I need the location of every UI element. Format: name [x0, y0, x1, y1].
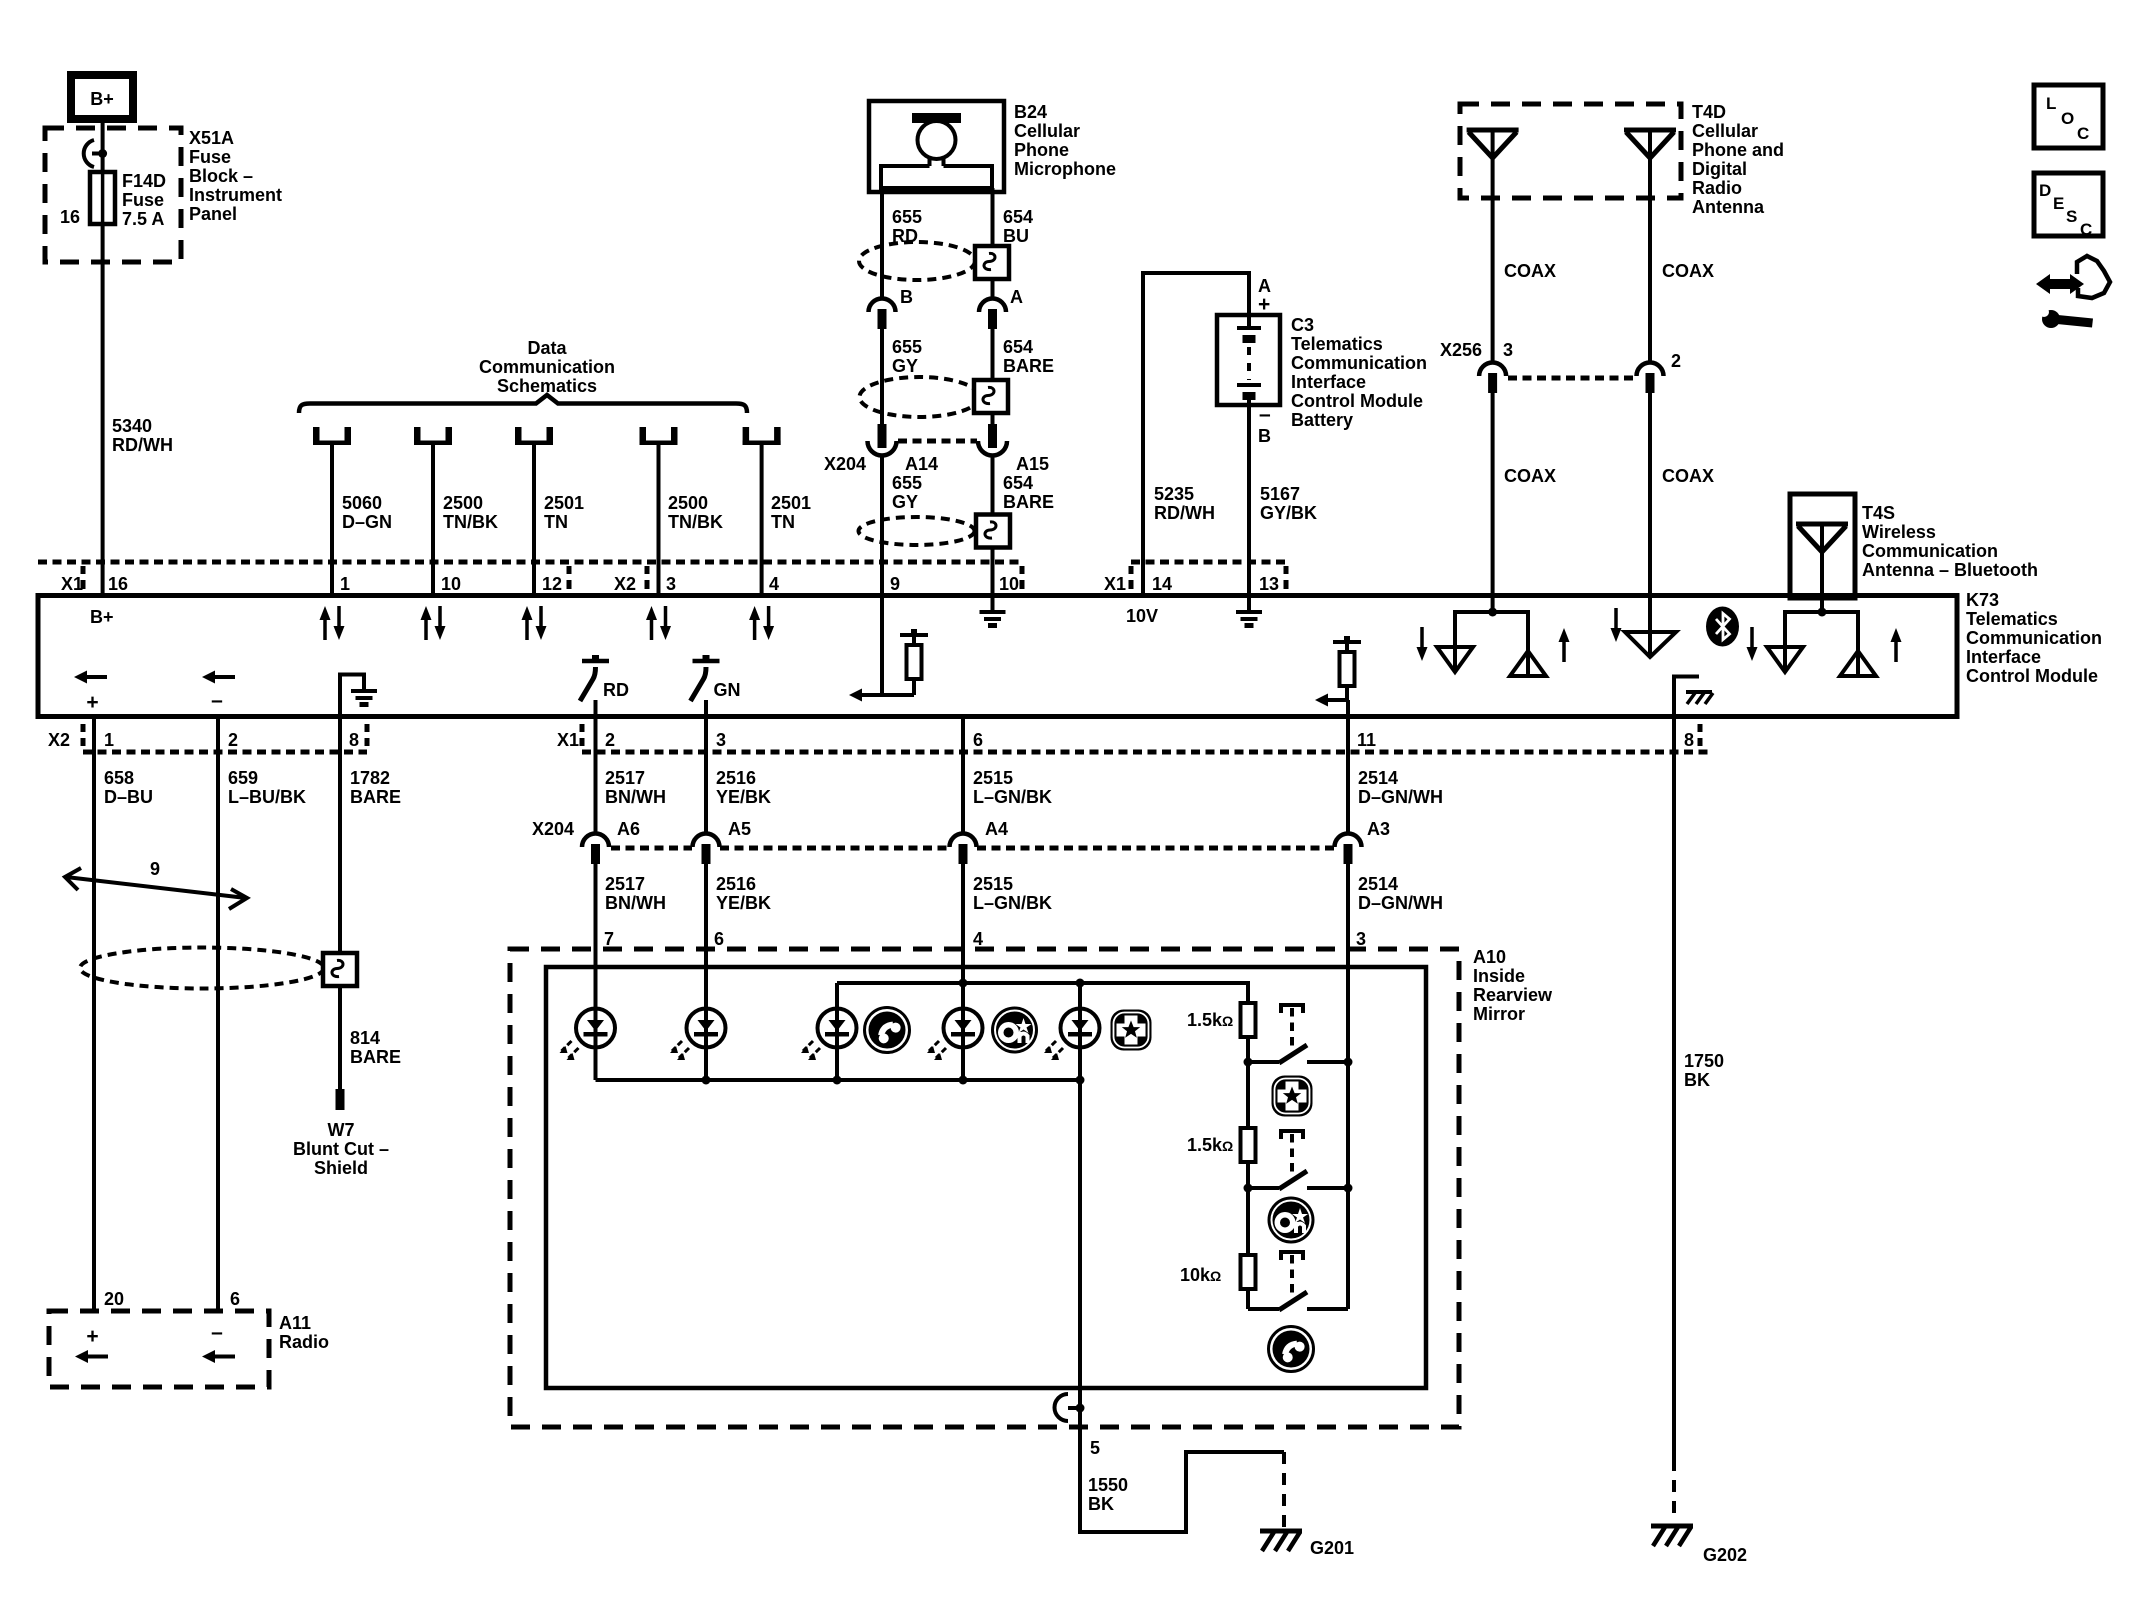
- serial data arrows pin 3: [646, 606, 671, 640]
- svg-text:Battery: Battery: [1291, 410, 1353, 430]
- wire R3 to switch row 3: [1246, 1289, 1250, 1309]
- label 655 RD: [892, 207, 922, 246]
- node switch1 right: [1344, 1058, 1353, 1067]
- svg-text:659: 659: [228, 768, 258, 788]
- svg-text:2: 2: [1671, 351, 1681, 371]
- svg-text:RD/WH: RD/WH: [112, 435, 173, 455]
- svg-text:2500: 2500: [443, 493, 483, 513]
- connector X204 A3: [1335, 834, 1362, 865]
- antenna symbol 1: [1467, 130, 1519, 158]
- svg-text:Blunt Cut –: Blunt Cut –: [293, 1139, 389, 1159]
- svg-text:Interface: Interface: [1966, 647, 2041, 667]
- svg-text:2517: 2517: [605, 874, 645, 894]
- svg-text:Telematics: Telematics: [1966, 609, 2058, 629]
- svg-text:COAX: COAX: [1662, 261, 1714, 281]
- wire 654 BARE (lower): [991, 456, 995, 596]
- wire 2516 YE/BK lower: [704, 864, 708, 1008]
- svg-text:Phone: Phone: [1014, 140, 1069, 160]
- wire 2514 D-GN/WH lower: [1346, 864, 1350, 1062]
- svg-text:8: 8: [349, 730, 359, 750]
- coax wire 1 lower: [1491, 392, 1495, 612]
- label 654 BARE: [1003, 473, 1054, 512]
- svg-text:4: 4: [973, 929, 983, 949]
- mirror inner box: [546, 967, 1426, 1388]
- svg-text:1782: 1782: [350, 768, 390, 788]
- label 2517 BN/WH: [605, 874, 666, 913]
- label 1750 BK: [1684, 1051, 1724, 1090]
- svg-text:Cellular: Cellular: [1692, 121, 1758, 141]
- svg-text:O: O: [2061, 109, 2074, 128]
- battery C3: [1217, 315, 1280, 405]
- resistor R 1.5k (middle): [1241, 1128, 1256, 1162]
- svg-text:2515: 2515: [973, 768, 1013, 788]
- connector X204 A15: [978, 424, 1007, 456]
- svg-text:A14: A14: [905, 454, 938, 474]
- pin labels bottom row: [48, 730, 1694, 750]
- data bus connector (pin 10): [414, 427, 452, 445]
- label 1550 BK: [1088, 1475, 1128, 1514]
- svg-text:14: 14: [1152, 574, 1172, 594]
- coax wire 1 upper: [1491, 130, 1495, 363]
- separator after 12: [567, 566, 572, 589]
- svg-text:655: 655: [892, 473, 922, 493]
- twisted/shield ellipse radio wires: [80, 948, 324, 989]
- wire 655 GY: [880, 328, 884, 424]
- svg-text:1: 1: [104, 730, 114, 750]
- svg-text:Rearview: Rearview: [1473, 985, 1553, 1005]
- svg-text:–: –: [211, 1321, 223, 1344]
- OnStar icon (LED row): [991, 1007, 1038, 1054]
- internal switch GN (pin X1-3): [691, 655, 741, 717]
- label 5235 RD/WH: [1154, 484, 1215, 523]
- svg-text:1: 1: [340, 574, 350, 594]
- radio A11 dashed box: [49, 1311, 269, 1387]
- node bus LED4: [959, 1076, 968, 1085]
- resistor R 10k: [1241, 1255, 1256, 1289]
- svg-text:13: 13: [1259, 574, 1279, 594]
- svg-text:2501: 2501: [771, 493, 811, 513]
- svg-text:2514: 2514: [1358, 768, 1398, 788]
- wire 1750 BK: [1672, 717, 1676, 1459]
- wire 658 D-BU: [92, 717, 96, 1311]
- svg-text:A10: A10: [1473, 947, 1506, 967]
- connector line X2 bottom: [83, 750, 367, 755]
- svg-text:A11: A11: [279, 1313, 311, 1333]
- wire 2517 BN/WH upper: [594, 717, 598, 834]
- svg-text:1.5kΩ: 1.5kΩ: [1187, 1010, 1233, 1030]
- fuse F14D 7.5A: [90, 172, 115, 224]
- internal ground (pin 10 mic): [980, 596, 1006, 626]
- svg-text:1550: 1550: [1088, 1475, 1128, 1495]
- svg-text:Radio: Radio: [1692, 178, 1742, 198]
- svg-text:Shield: Shield: [314, 1158, 368, 1178]
- svg-text:X1: X1: [557, 730, 579, 750]
- svg-text:Radio: Radio: [279, 1332, 329, 1352]
- svg-text:3: 3: [666, 574, 676, 594]
- connector X204 A14: [868, 424, 897, 456]
- OnStar icon (button): [1268, 1197, 1315, 1244]
- data bus connector (X2 pin 3): [640, 427, 678, 445]
- label A +: [1258, 276, 1271, 316]
- svg-text:T4D: T4D: [1692, 102, 1726, 122]
- svg-text:GY: GY: [892, 356, 918, 376]
- T4S box: [1790, 494, 1855, 598]
- terminal hook at fuse input: [84, 140, 107, 167]
- connector X204 A5: [693, 834, 720, 865]
- svg-text:2: 2: [228, 730, 238, 750]
- svg-text:X2: X2: [614, 574, 636, 594]
- separator X1: [580, 724, 585, 746]
- label C3 Telematics Communication Interface Control Module Battery: [1291, 315, 1427, 430]
- svg-text:X204: X204: [532, 819, 574, 839]
- label T4D Cellular Phone and Digital Radio Antenna: [1692, 102, 1784, 217]
- power symbol B+: [71, 75, 133, 119]
- wire 5167 GY/BK: [1247, 400, 1251, 596]
- svg-text:Fuse: Fuse: [122, 190, 164, 210]
- LED indicator 5: [1044, 1009, 1100, 1061]
- internal RF branch bluetooth: [1747, 608, 1902, 677]
- twist symbol box 2: [974, 380, 1008, 413]
- LED4 wire: [961, 983, 965, 1080]
- svg-text:2: 2: [605, 730, 615, 750]
- svg-text:Instrument: Instrument: [189, 185, 282, 205]
- internal pull-up resistor (pin 11): [1333, 636, 1361, 700]
- label K73 Telematics Communication Interface Control Module: [1966, 590, 2102, 686]
- svg-text:L–BU/BK: L–BU/BK: [228, 787, 306, 807]
- svg-text:YE/BK: YE/BK: [716, 787, 771, 807]
- label 2516 YE/BK: [716, 768, 771, 807]
- label - B: [1258, 403, 1271, 446]
- label 5340 RD/WH: [112, 416, 173, 455]
- module K73 box: [38, 596, 1957, 717]
- data bus connector (X2 pin 4): [743, 427, 781, 445]
- internal mic input arrow: [849, 689, 882, 702]
- note 9 crossing arrow: [65, 859, 247, 909]
- svg-text:Communication: Communication: [1966, 628, 2102, 648]
- dashed link X204 row: [611, 846, 1334, 851]
- svg-text:D–GN: D–GN: [342, 512, 392, 532]
- phone icon (button): [1269, 1327, 1314, 1372]
- svg-text:Inside: Inside: [1473, 966, 1525, 986]
- svg-text:1750: 1750: [1684, 1051, 1724, 1071]
- label A11 Radio: [279, 1313, 329, 1352]
- svg-text:A4: A4: [985, 819, 1008, 839]
- right rail wire (pin 3): [1346, 1062, 1350, 1309]
- label 655 GY: [892, 473, 922, 512]
- antenna symbol 2: [1624, 130, 1676, 158]
- data bus connector (pin 12): [515, 427, 553, 445]
- svg-text:A: A: [1010, 287, 1023, 307]
- internal output arrow +: [74, 671, 107, 684]
- wire 654 BU: [991, 188, 995, 244]
- radio + input arrow: [75, 1325, 108, 1363]
- svg-text:Block –: Block –: [189, 166, 253, 186]
- internal RF branch coax 1: [1417, 608, 1570, 677]
- LED indicator 3: [801, 1009, 857, 1061]
- svg-text:5340: 5340: [112, 416, 152, 436]
- switch row 2: [1248, 1131, 1348, 1189]
- LED indicator 1: [560, 1009, 616, 1061]
- svg-text:–: –: [1259, 403, 1271, 426]
- node top rail / LED5: [1076, 979, 1085, 988]
- label 658 D-BU: [104, 768, 153, 807]
- svg-text:TN/BK: TN/BK: [443, 512, 498, 532]
- label 2515 L-GN/BK: [973, 874, 1052, 913]
- svg-text:RD/WH: RD/WH: [1154, 503, 1215, 523]
- svg-text:9: 9: [890, 574, 900, 594]
- wire 2501 TN (X2-4): [760, 445, 764, 596]
- wire 5060 D-GN: [330, 445, 334, 596]
- svg-text:2501: 2501: [544, 493, 584, 513]
- svg-text:COAX: COAX: [1504, 261, 1556, 281]
- svg-text:8: 8: [1684, 730, 1694, 750]
- svg-text:BARE: BARE: [350, 787, 401, 807]
- label 5167 GY/BK: [1260, 484, 1317, 523]
- separator X2: [81, 724, 86, 746]
- DESC box: [2034, 173, 2103, 239]
- serial data arrows pin 12: [522, 606, 547, 640]
- inline connector A: [979, 299, 1006, 330]
- svg-text:654: 654: [1003, 337, 1033, 357]
- wire R2-R3: [1246, 1188, 1250, 1255]
- wire 2515 L-GN/BK lower: [961, 864, 965, 1008]
- label A10 Inside Rearview Mirror: [1473, 947, 1553, 1024]
- svg-text:B24: B24: [1014, 102, 1047, 122]
- svg-text:Control Module: Control Module: [1291, 391, 1423, 411]
- svg-text:658: 658: [104, 768, 134, 788]
- svg-text:B: B: [1258, 426, 1271, 446]
- internal mic input pin 9: wire: [880, 596, 884, 695]
- svg-text:3: 3: [716, 730, 726, 750]
- svg-text:S: S: [2066, 207, 2077, 226]
- svg-text:Communication: Communication: [479, 357, 615, 377]
- svg-text:1.5kΩ: 1.5kΩ: [1187, 1135, 1233, 1155]
- svg-text:A3: A3: [1367, 819, 1390, 839]
- A10 dashed box: [510, 949, 1459, 1427]
- svg-text:Microphone: Microphone: [1014, 159, 1116, 179]
- svg-text:A6: A6: [617, 819, 640, 839]
- svg-text:655: 655: [892, 337, 922, 357]
- brace over data wires: [299, 395, 747, 413]
- label X51A Fuse Block - Instrument Panel: [189, 128, 282, 224]
- dashed drop to G201: [1282, 1452, 1286, 1528]
- fuse block X51A dashed box: [45, 128, 181, 262]
- separator after 10: [1020, 566, 1025, 589]
- svg-text:6: 6: [714, 929, 724, 949]
- connector X204 A4: [950, 834, 977, 865]
- svg-text:G201: G201: [1310, 1538, 1354, 1558]
- label 2514 D-GN/WH: [1358, 768, 1443, 807]
- svg-text:BARE: BARE: [350, 1047, 401, 1067]
- connector line X1/X2 top: [38, 560, 1022, 565]
- svg-text:X204: X204: [824, 454, 866, 474]
- svg-text:Antenna – Bluetooth: Antenna – Bluetooth: [1862, 560, 2038, 580]
- svg-text:Interface: Interface: [1291, 372, 1366, 392]
- separator after 13: [1284, 566, 1289, 589]
- svg-text:E: E: [2053, 194, 2064, 213]
- wire 2516 YE/BK upper: [704, 717, 708, 834]
- svg-text:Telematics: Telematics: [1291, 334, 1383, 354]
- svg-text:10kΩ: 10kΩ: [1180, 1265, 1221, 1285]
- separator after X2-8: [365, 724, 370, 746]
- svg-text:X1: X1: [1104, 574, 1126, 594]
- twisted pair ellipse 3: [859, 517, 975, 545]
- radio - input arrow: [202, 1321, 235, 1363]
- svg-text:BARE: BARE: [1003, 492, 1054, 512]
- svg-text:5: 5: [1090, 1438, 1100, 1458]
- internal ground (pin 13): [1236, 596, 1262, 626]
- connector X256 pin 2: [1637, 363, 1664, 394]
- twist symbol box 1: [975, 246, 1009, 279]
- twisted pair ellipse 2: [860, 377, 980, 417]
- label 2515 L-GN/BK: [973, 768, 1052, 807]
- svg-text:Antenna: Antenna: [1692, 197, 1765, 217]
- wire 654 BARE: [991, 328, 995, 380]
- svg-text:X256: X256: [1440, 340, 1482, 360]
- internal RF antenna coax 2: [1611, 608, 1677, 657]
- svg-text:9: 9: [150, 859, 160, 879]
- svg-text:L: L: [2046, 94, 2056, 113]
- return wire pin 5: [1080, 1080, 1284, 1532]
- svg-text:COAX: COAX: [1504, 466, 1556, 486]
- terminal clip at pin 5: [1055, 1394, 1085, 1421]
- label 2517 BN/WH: [605, 768, 666, 807]
- svg-text:Cellular: Cellular: [1014, 121, 1080, 141]
- medical cross icon (LED row): [1111, 1010, 1152, 1051]
- dashed link A14-A15: [898, 439, 977, 444]
- wire 2500 TN/BK: [431, 445, 435, 596]
- svg-text:B+: B+: [90, 89, 114, 109]
- twist symbol box 3: [976, 515, 1010, 548]
- svg-text:5235: 5235: [1154, 484, 1194, 504]
- separator after X2: [645, 566, 650, 589]
- svg-text:Mirror: Mirror: [1473, 1004, 1525, 1024]
- LED5 wire: [1078, 983, 1082, 1080]
- svg-text:Phone and: Phone and: [1692, 140, 1784, 160]
- coax wire 2 upper: [1648, 130, 1652, 363]
- svg-text:2515: 2515: [973, 874, 1013, 894]
- internal switch RD (pin X1-2): [580, 655, 629, 717]
- wire 2514 D-GN/WH upper: [1346, 717, 1350, 834]
- svg-text:A15: A15: [1016, 454, 1049, 474]
- svg-text:X51A: X51A: [189, 128, 234, 148]
- svg-text:BARE: BARE: [1003, 356, 1054, 376]
- connector line X1 bottom: [582, 750, 1709, 755]
- svg-text:+: +: [86, 691, 98, 714]
- svg-text:BU: BU: [1003, 226, 1029, 246]
- label W7 Blunt Cut - Shield: [293, 1120, 389, 1178]
- svg-text:BK: BK: [1684, 1070, 1710, 1090]
- svg-text:B+: B+: [90, 607, 114, 627]
- svg-text:Communication: Communication: [1291, 353, 1427, 373]
- medical cross icon (button): [1272, 1076, 1313, 1117]
- svg-text:GN: GN: [714, 680, 741, 700]
- svg-text:2517: 2517: [605, 768, 645, 788]
- label 2500 TN/BK: [668, 493, 723, 532]
- inline connector B: [869, 299, 896, 330]
- svg-text:6: 6: [230, 1289, 240, 1309]
- node switch2 left: [1244, 1184, 1253, 1193]
- wire 2501 TN: [532, 445, 536, 596]
- separator at 14: [1129, 566, 1134, 589]
- label F14D Fuse 7.5 A: [122, 171, 166, 229]
- switch row 3: [1248, 1252, 1348, 1310]
- svg-text:K73: K73: [1966, 590, 1999, 610]
- svg-text:BK: BK: [1088, 1494, 1114, 1514]
- svg-text:Fuse: Fuse: [189, 147, 231, 167]
- svg-text:2500: 2500: [668, 493, 708, 513]
- twisted pair ellipse 1: [859, 242, 975, 280]
- svg-text:7: 7: [604, 929, 614, 949]
- svg-text:814: 814: [350, 1028, 380, 1048]
- wire R1 to switch row 1: [1246, 1037, 1250, 1062]
- svg-text:654: 654: [1003, 207, 1033, 227]
- wire 814 BARE: [338, 986, 342, 1089]
- node bus LED3: [833, 1076, 842, 1085]
- label 1782 BARE: [350, 768, 401, 807]
- svg-text:X1: X1: [61, 574, 83, 594]
- label T4S Wireless Communication Antenna - Bluetooth: [1862, 503, 2038, 580]
- connector line X1 (14/13): [1131, 560, 1286, 565]
- svg-text:BN/WH: BN/WH: [605, 787, 666, 807]
- wire 2500 TN/BK (X2-3): [657, 445, 661, 596]
- label 654 BU: [1003, 207, 1033, 246]
- ground G201: [1260, 1531, 1302, 1551]
- blunt cut end W7: [336, 1089, 345, 1110]
- svg-text:Digital: Digital: [1692, 159, 1747, 179]
- svg-text:Panel: Panel: [189, 204, 237, 224]
- wire 2517 BN/WH lower: [594, 864, 598, 1008]
- svg-text:2516: 2516: [716, 874, 756, 894]
- svg-text:B: B: [900, 287, 913, 307]
- wire 1782 BARE: [338, 717, 342, 953]
- svg-text:YE/BK: YE/BK: [716, 893, 771, 913]
- separator X1 left: [81, 566, 86, 589]
- svg-text:L–GN/BK: L–GN/BK: [973, 893, 1052, 913]
- wire 5235 RD/WH top run: [1143, 273, 1249, 596]
- connector X204 A6: [582, 834, 609, 865]
- svg-text:10: 10: [999, 574, 1019, 594]
- svg-text:Wireless: Wireless: [1862, 522, 1936, 542]
- connector X256 pin 3: [1479, 363, 1506, 394]
- wire 654 below twist 1: [991, 279, 995, 299]
- wire 655 RD: [880, 188, 884, 299]
- svg-text:GY/BK: GY/BK: [1260, 503, 1317, 523]
- twist symbol box W7: [323, 953, 357, 986]
- node bus return: [1076, 1076, 1085, 1085]
- wire 5340 RD/WH: [101, 224, 105, 596]
- label 814 BARE: [350, 1028, 401, 1067]
- svg-text:2514: 2514: [1358, 874, 1398, 894]
- svg-text:10: 10: [441, 574, 461, 594]
- label 2501 TN: [771, 493, 811, 532]
- serial data arrows pin 10: [421, 606, 446, 640]
- internal output arrow (pin 11): [1315, 694, 1348, 707]
- svg-text:10V: 10V: [1126, 606, 1158, 626]
- wire R2 to switch row 2: [1246, 1162, 1250, 1188]
- svg-text:X2: X2: [48, 730, 70, 750]
- svg-text:7.5 A: 7.5 A: [122, 209, 164, 229]
- internal chassis ground (pin X1-8): [1674, 677, 1713, 718]
- svg-text:D–BU: D–BU: [104, 787, 153, 807]
- svg-text:TN/BK: TN/BK: [668, 512, 723, 532]
- microphone B24 symbol: [869, 101, 1004, 192]
- label Data Communication Schematics: [479, 338, 615, 396]
- svg-text:–: –: [211, 689, 223, 712]
- label B24 Cellular Phone Microphone: [1014, 102, 1116, 179]
- serial data arrows pin 1: [320, 606, 345, 640]
- node bus LED2: [702, 1076, 711, 1085]
